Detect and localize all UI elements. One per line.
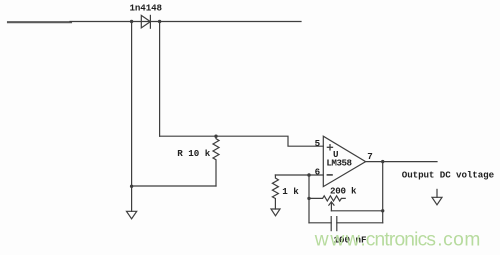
diode D1 1n4148 — [130, 3, 163, 29]
wire node A to ground — [131, 186, 133, 211]
svg-text:7: 7 — [367, 151, 373, 162]
junction 200k left — [307, 197, 310, 200]
ground GND3 — [432, 189, 442, 204]
svg-text:cntronics: cntronics — [366, 230, 436, 251]
wire anode down — [131, 22, 133, 187]
wire top rail thick segment — [8, 21, 71, 23]
watermark www.cntronics.com — [314, 230, 481, 251]
wire wiper to output branch — [331, 210, 382, 212]
junction R10k top — [214, 135, 217, 138]
svg-text:5: 5 — [315, 138, 321, 149]
wire pin6 — [275, 174, 323, 176]
junction diode cathode — [158, 20, 161, 23]
svg-text:R 10 k: R 10 k — [177, 148, 210, 159]
capacitor C1 100 nF — [331, 217, 366, 246]
junction diode anode — [130, 20, 133, 23]
wire bottom left — [309, 222, 331, 224]
wire cathode down — [159, 22, 161, 137]
svg-text:.com: .com — [437, 230, 480, 251]
resistor R2 1 k — [272, 175, 299, 209]
wire R10k bottom to node A — [132, 185, 216, 187]
wire pin6 node down — [308, 175, 310, 223]
svg-text:1n4148: 1n4148 — [130, 3, 163, 14]
potentiometer R3 200 k — [309, 186, 357, 211]
svg-text:200 k: 200 k — [330, 186, 357, 197]
wire output down — [382, 162, 384, 223]
op-amp U1 LM358 — [323, 136, 365, 186]
junction output — [381, 160, 384, 163]
svg-text:6: 6 — [315, 167, 321, 178]
ground GND1 — [127, 211, 137, 219]
svg-text:www.: www. — [314, 230, 366, 251]
wire cathode to R10k node — [160, 135, 216, 137]
junction wiper-output — [381, 209, 384, 212]
junction pin6 node — [307, 173, 311, 177]
wire output — [366, 161, 437, 163]
wire node to op-amp pin5 — [216, 136, 323, 146]
wire bottom right — [337, 222, 383, 224]
svg-text:1 k: 1 k — [282, 186, 299, 197]
resistor R 10 k — [177, 136, 219, 186]
wire top rail — [70, 21, 301, 23]
svg-text:LM358: LM358 — [326, 157, 352, 168]
junction node A — [130, 185, 133, 188]
svg-text:Output DC voltage: Output DC voltage — [402, 170, 495, 181]
ground GND2 — [271, 209, 280, 216]
